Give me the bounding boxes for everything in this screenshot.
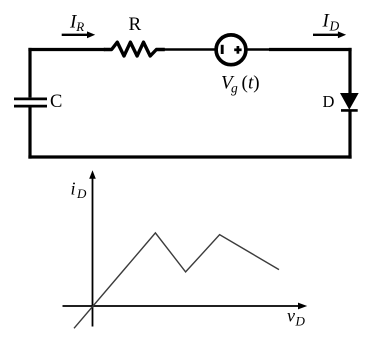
label D [323,92,335,111]
diode D anode triangle [340,93,359,110]
graph x-axis [63,303,308,310]
svg-text:g: g [231,80,238,95]
wire resistor to source [164,48,216,51]
label I_R [69,11,84,34]
wire left vertical lower (capacitor to bottom) [28,107,31,158]
svg-text:v: v [287,306,295,326]
diode i-v curve [74,233,279,328]
diode D cathode bar [341,109,358,112]
voltage source plus terminal [234,46,241,54]
resistor R [104,42,165,56]
wire bottom [28,155,351,158]
capacitor C bottom plate [14,105,47,108]
svg-text:D: D [295,313,306,328]
label i_D (y axis) [71,178,88,201]
wire left vertical upper (to capacitor) [28,48,31,98]
svg-text:C: C [50,92,62,112]
voltage source minus terminal [221,45,224,54]
label R [129,14,142,35]
capacitor C top plate [14,98,47,101]
voltage source Vg circle [216,35,246,65]
svg-text:D: D [329,18,340,33]
wire right vertical upper (to diode) [348,48,351,94]
label I_D [322,10,340,33]
svg-text:R: R [129,14,142,35]
svg-text:R: R [75,19,84,34]
svg-text:D: D [76,186,87,201]
svg-text:D: D [323,92,335,111]
wire top-left segment (node A to resistor) [28,48,105,51]
svg-text:i: i [71,178,76,198]
wire right vertical lower (diode to bottom) [348,112,351,159]
graph y-axis [89,170,96,326]
wire source to top-right corner [246,48,352,51]
label Vg(t) [221,72,260,95]
label C [50,92,62,112]
svg-text:): ) [253,72,259,93]
svg-text:(: ( [242,72,248,93]
current arrow I_R [62,31,95,38]
current arrow I_D [313,31,346,38]
label v_D (x axis) [287,306,306,329]
